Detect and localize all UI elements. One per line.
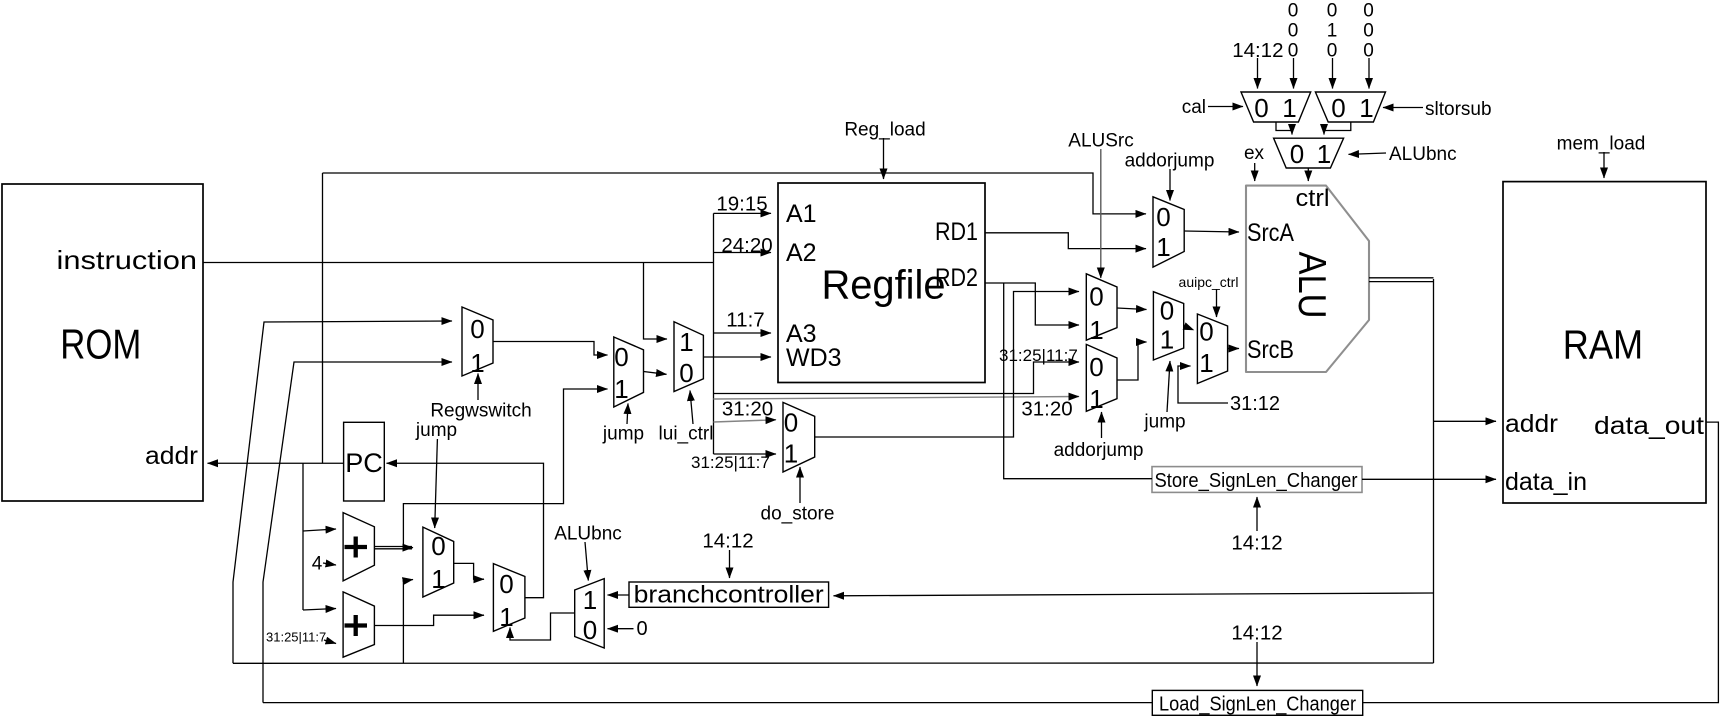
svg-text:ALUSrc: ALUSrc — [1068, 131, 1133, 152]
ROM box — [2, 184, 203, 501]
svg-text:14:12: 14:12 — [1231, 532, 1282, 555]
mux ALUbnc (branch) reversed — [575, 579, 605, 648]
wire Reg_load — [883, 138, 885, 179]
svg-text:0: 0 — [1089, 282, 1103, 312]
wire PC to adders riser — [302, 463, 304, 610]
mux B (pc source 2) — [493, 564, 525, 632]
svg-text:data_out: data_out — [1594, 412, 1704, 440]
wire ALUbnc select top mux — [1349, 153, 1387, 154]
mux 4 jump (SrcB pre) — [1153, 292, 1183, 360]
ALU — [1246, 185, 1369, 372]
wire ALU result bottom rail — [233, 662, 1434, 664]
svg-text:19:15: 19:15 — [716, 193, 767, 216]
wire to RAM addr — [1434, 420, 1497, 422]
wire Regwswitch select — [477, 374, 479, 401]
wire A1 — [714, 212, 772, 214]
svg-text:0: 0 — [1288, 21, 1299, 42]
mux 3 addorjump (imm) — [1086, 344, 1117, 414]
wire jump select jump mux — [627, 404, 628, 425]
svg-text:1: 1 — [1089, 384, 1103, 414]
wire Load box to data_out riser — [1363, 422, 1719, 702]
mux top cal — [1241, 92, 1311, 123]
wire mux3 in0 imm — [714, 362, 1080, 394]
svg-text:4: 4 — [312, 554, 323, 575]
svg-text:ex: ex — [1244, 143, 1265, 164]
wire load data bottom rail — [263, 702, 1152, 704]
svg-text:1: 1 — [1282, 93, 1296, 123]
svg-text:A2: A2 — [786, 239, 817, 267]
svg-text:1: 1 — [679, 327, 693, 357]
svg-text:data_in: data_in — [1505, 468, 1587, 496]
svg-text:1: 1 — [499, 602, 513, 632]
wire 31:12 const to mux5 in1 — [1178, 366, 1228, 403]
wire ALUbnc mux out to muxB select — [510, 613, 575, 640]
wire do_store in0 31:20 (gray) — [714, 420, 777, 422]
svg-text:Load_SignLen_Changer: Load_SignLen_Changer — [1159, 694, 1356, 716]
wire adder1 out double line to muxA in0 — [374, 547, 412, 549]
wire A3 — [714, 332, 772, 334]
svg-text:addorjump: addorjump — [1054, 440, 1144, 461]
wire addorjump select mux3 — [1101, 412, 1103, 438]
wire mem_load — [1603, 152, 1605, 178]
wire jump select muxA — [435, 439, 438, 528]
svg-text:cal: cal — [1182, 97, 1206, 118]
svg-text:0: 0 — [1327, 1, 1338, 22]
wire lui_ctrl select — [690, 391, 693, 425]
svg-text:31:12: 31:12 — [1230, 393, 1280, 415]
wire adder2 out to muxB in1 — [374, 615, 484, 625]
wire lui_ctrl out to WD3 — [703, 356, 771, 358]
wire mux3 in1 imm 31:20 (gray) — [714, 397, 1080, 400]
wire PC rail riser — [322, 173, 324, 463]
branchcontroller box — [629, 582, 829, 609]
mux top sltorsub — [1315, 92, 1385, 123]
svg-text:1: 1 — [614, 374, 628, 404]
wire cal select — [1208, 106, 1243, 108]
wire RD2 to mux2 in1 — [985, 283, 1079, 325]
wire ALU result riser to Regwswitch in0 — [233, 321, 452, 663]
svg-text:1: 1 — [1156, 232, 1170, 262]
wire auipc_ctrl select mux5 — [1216, 289, 1218, 317]
wire mux1 out to SrcA — [1184, 231, 1239, 232]
mux top ALUbnc — [1274, 138, 1344, 169]
wire riser to adder2 — [303, 609, 336, 611]
svg-text:0: 0 — [1199, 317, 1213, 347]
svg-text:mem_load: mem_load — [1557, 134, 1646, 155]
mux do_store — [783, 402, 815, 472]
Store_SignLen_Changer box — [1152, 467, 1362, 493]
wire PC+4 link to jump mux in1 — [403, 389, 607, 548]
svg-text:ALUbnc: ALUbnc — [554, 524, 622, 545]
svg-text:Reg_load: Reg_load — [844, 120, 925, 141]
wire riser to adder1 — [303, 529, 336, 531]
wire ALUSrc select (gray) — [1100, 149, 1102, 278]
Regfile box — [778, 183, 985, 383]
svg-text:0: 0 — [1327, 41, 1338, 62]
svg-text:0: 0 — [499, 569, 513, 599]
wire ALU result vertical — [1433, 279, 1435, 663]
wire ALU output double line — [1369, 278, 1434, 282]
svg-text:0: 0 — [1156, 202, 1170, 232]
svg-text:31:25|11:7: 31:25|11:7 — [691, 453, 770, 472]
mux lui_ctrl — [674, 322, 703, 392]
svg-text:ctrl: ctrl — [1296, 185, 1330, 212]
svg-text:0: 0 — [784, 408, 798, 438]
svg-text:1: 1 — [1089, 315, 1103, 345]
wire RD1 to mux1 in1 — [985, 233, 1146, 249]
svg-text:branchcontroller: branchcontroller — [634, 582, 824, 609]
svg-text:1: 1 — [1199, 348, 1213, 378]
svg-text:ALUbnc: ALUbnc — [1389, 144, 1457, 165]
wire jump mux out to lui_ctrl in0 — [644, 372, 667, 375]
svg-text:0: 0 — [431, 531, 445, 561]
mux Regwswitch — [462, 307, 493, 378]
svg-text:14:12: 14:12 — [1231, 622, 1282, 645]
mux A (pc source 1) — [423, 527, 454, 597]
wire top mux1 out — [1276, 122, 1292, 135]
mux 2 ALUSrc — [1086, 274, 1117, 345]
wire imm to adder2 — [324, 640, 336, 644]
wire sltorsub select — [1383, 107, 1423, 109]
svg-text:0: 0 — [636, 618, 647, 640]
wire top mux2 out — [1324, 122, 1351, 135]
wire mux2 out to mux4 in0 — [1117, 308, 1147, 310]
wire Regwswitch out to jump mux in0 — [493, 342, 608, 356]
wire RD2 branch to Store_SignLen_Changer — [1004, 283, 1152, 479]
wire do_store out to mux2 in0 — [815, 292, 1079, 438]
svg-text:0: 0 — [1290, 139, 1304, 169]
wire lui_ctrl in1 — [644, 263, 668, 340]
svg-text:0: 0 — [614, 342, 628, 372]
wire const 0 to ALUbnc mux in0 — [608, 628, 634, 630]
svg-text:Regfile: Regfile — [822, 262, 946, 308]
svg-text:1: 1 — [431, 564, 445, 594]
wire const col1 — [1293, 58, 1295, 89]
svg-text:1: 1 — [1327, 21, 1338, 42]
svg-text:jump: jump — [602, 424, 644, 445]
wire 14:12 to Load box — [1256, 642, 1258, 686]
wire ALUbnc select branch mux — [585, 542, 588, 581]
svg-text:Regwswitch: Regwswitch — [430, 401, 531, 422]
svg-text:jump: jump — [415, 420, 457, 441]
svg-text:PC: PC — [345, 448, 383, 478]
svg-text:0: 0 — [583, 615, 597, 645]
wire mux5 out to SrcB — [1228, 348, 1239, 350]
wire muxA out to muxB in0 — [454, 563, 484, 579]
svg-text:addr: addr — [145, 442, 198, 470]
adder PC+4 — [343, 513, 374, 581]
svg-text:0: 0 — [1089, 352, 1103, 382]
svg-text:0: 0 — [1363, 1, 1374, 22]
wire PC top rail to mux1 in0 — [323, 173, 1147, 214]
wire const col2 — [1332, 58, 1334, 89]
svg-text:jump: jump — [1143, 412, 1185, 433]
wire do_store in1 — [714, 453, 777, 455]
wire const col3 — [1368, 58, 1370, 89]
svg-text:1: 1 — [784, 439, 798, 469]
svg-text:auipc_ctrl: auipc_ctrl — [1179, 274, 1239, 290]
wire top mux3 out to ALU ctrl — [1307, 168, 1309, 181]
wire mux4 out to mux5 in0 — [1184, 325, 1186, 328]
svg-text:0: 0 — [1254, 93, 1268, 123]
wire mux3 out to mux4 in1 — [1117, 342, 1147, 380]
svg-text:Store_SignLen_Changer: Store_SignLen_Changer — [1155, 470, 1358, 492]
mux 1 addorjump (SrcA) — [1153, 197, 1184, 267]
svg-text:0: 0 — [1363, 41, 1374, 62]
svg-text:0: 0 — [1160, 296, 1174, 326]
wire 14:12 to Store box — [1256, 497, 1258, 531]
svg-text:WD3: WD3 — [786, 344, 842, 372]
svg-text:31:20: 31:20 — [1021, 398, 1072, 421]
svg-text:1: 1 — [1160, 325, 1174, 355]
wire jump select mux4 — [1167, 361, 1170, 412]
wire to branchcontroller — [834, 593, 1434, 596]
svg-text:0: 0 — [470, 314, 484, 344]
svg-text:instruction: instruction — [57, 245, 198, 275]
wire bottom rail to muxA in1 — [403, 580, 413, 664]
mux jump (PC write data) — [614, 337, 644, 407]
svg-text:31:20: 31:20 — [722, 398, 773, 421]
wire branchcontroller to ALUbnc mux in1 — [608, 594, 630, 596]
svg-text:0: 0 — [1288, 1, 1299, 22]
wire const 4 to adder1 — [323, 563, 336, 565]
wire Store out to RAM data_in — [1362, 478, 1496, 480]
wire instruction ROM to imm bus — [203, 262, 714, 264]
svg-text:31:25|11:7: 31:25|11:7 — [266, 630, 326, 645]
svg-text:ALU: ALU — [1290, 252, 1333, 319]
wire addorjump select mux1 — [1169, 169, 1171, 201]
svg-text:0: 0 — [1363, 21, 1374, 42]
svg-text:addorjump: addorjump — [1125, 151, 1215, 172]
RAM box — [1503, 182, 1706, 503]
svg-text:14:12: 14:12 — [702, 530, 753, 553]
svg-text:0: 0 — [1288, 41, 1299, 62]
svg-text:SrcB: SrcB — [1247, 336, 1294, 364]
svg-text:31:25|11:7: 31:25|11:7 — [999, 346, 1078, 365]
svg-text:do_store: do_store — [761, 504, 835, 525]
svg-text:ROM: ROM — [60, 321, 141, 368]
wire ex to ALU — [1254, 163, 1256, 181]
wire muxB out to PC — [387, 463, 544, 597]
svg-text:A1: A1 — [786, 200, 817, 228]
svg-text:lui_ctrl: lui_ctrl — [659, 424, 714, 445]
wire instruction vertical bus — [713, 213, 715, 454]
wire A2 — [714, 252, 772, 254]
svg-text:RD1: RD1 — [935, 218, 978, 246]
svg-text:1: 1 — [1317, 139, 1331, 169]
adder branch target — [343, 592, 374, 657]
wire do_store select — [799, 467, 801, 503]
svg-text:14:12: 14:12 — [1232, 39, 1283, 62]
svg-text:sltorsub: sltorsub — [1425, 99, 1492, 120]
PC box — [344, 422, 385, 501]
svg-text:1: 1 — [1359, 93, 1373, 123]
mux 5 auipc_ctrl (SrcB) — [1197, 314, 1227, 384]
svg-text:addr: addr — [1505, 410, 1558, 438]
svg-text:1: 1 — [583, 585, 597, 615]
svg-text:RAM: RAM — [1563, 321, 1643, 367]
svg-text:SrcA: SrcA — [1247, 219, 1294, 247]
svg-text:0: 0 — [1331, 93, 1345, 123]
svg-text:24:20: 24:20 — [721, 234, 772, 257]
wire PC out to ROM addr — [208, 462, 344, 464]
wire 14:12 to top mux — [1257, 58, 1259, 89]
wire load data riser to Regwswitch in1 — [263, 362, 452, 703]
svg-text:0: 0 — [679, 358, 693, 388]
wire 14:12 to branchcontroller — [729, 550, 731, 578]
svg-text:11:7: 11:7 — [726, 309, 764, 332]
Load_SignLen_Changer box — [1152, 690, 1362, 715]
